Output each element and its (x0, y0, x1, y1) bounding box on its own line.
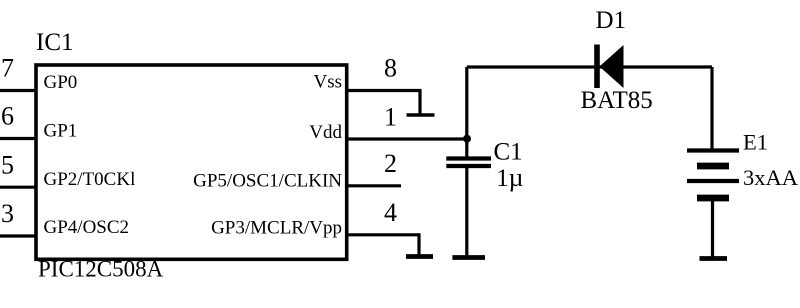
wire pin 2 stub (347, 184, 401, 187)
svg-text:GP5/OSC1/CLKIN: GP5/OSC1/CLKIN (193, 171, 342, 192)
wire pin 7 (0, 89, 36, 92)
capacitor C1 top plate (446, 156, 491, 160)
capacitor C1 bottom plate (446, 164, 491, 168)
svg-text:3: 3 (1, 199, 14, 228)
svg-text:C1: C1 (494, 138, 523, 165)
svg-text:IC1: IC1 (36, 29, 74, 56)
svg-text:1: 1 (384, 102, 397, 131)
ground for E1 (700, 256, 728, 261)
svg-text:GP3/MCLR/Vpp: GP3/MCLR/Vpp (211, 218, 342, 239)
ground for pin 8 (407, 113, 435, 117)
svg-text:5: 5 (1, 150, 14, 179)
svg-text:D1: D1 (596, 7, 627, 34)
battery E1 plate long 1 (687, 148, 739, 152)
IC IC1 body (PIC12C508A) (36, 65, 347, 259)
svg-text:GP0: GP0 (44, 72, 78, 93)
wire pin 3 (0, 234, 36, 237)
svg-text:BAT85: BAT85 (581, 87, 653, 114)
ground for pin 4 (406, 254, 433, 259)
svg-text:E1: E1 (743, 130, 768, 155)
wire pin 1 (Vdd) to node A (347, 137, 467, 140)
ground for C1 (452, 255, 485, 260)
svg-text:1: 1 (496, 165, 509, 192)
svg-text:PIC12C508A: PIC12C508A (38, 257, 164, 282)
svg-text:6: 6 (1, 102, 14, 131)
diode D1 cathode bar (594, 45, 600, 89)
svg-text:GP4/OSC2: GP4/OSC2 (44, 217, 130, 238)
svg-text:GP2/T0CKl: GP2/T0CKl (44, 169, 136, 190)
wire node A vertical (top rail to C1) (465, 67, 468, 159)
svg-text:8: 8 (384, 54, 397, 83)
wire pin 6 (0, 137, 36, 140)
diode D1 triangle (599, 45, 623, 88)
wire pin 4 to ground (347, 235, 419, 257)
wire C1 to ground (465, 166, 468, 258)
svg-text:Vdd: Vdd (309, 122, 342, 143)
svg-text:2: 2 (384, 149, 397, 178)
svg-text:µ: µ (509, 163, 524, 192)
svg-text:GP1: GP1 (44, 120, 78, 141)
wire top rail (467, 65, 712, 68)
battery E1 plate long 2 (687, 179, 739, 183)
wire pin 5 (0, 186, 36, 189)
wire battery to ground (711, 198, 714, 259)
wire pin 8 (Vss) to ground (347, 91, 420, 116)
battery E1 plate short 1 (697, 163, 729, 170)
svg-text:7: 7 (1, 54, 14, 83)
svg-text:4: 4 (384, 198, 397, 227)
battery E1 plate short 2 (697, 195, 729, 202)
node A junction dot (463, 135, 471, 143)
wire E1 branch vertical (710, 67, 713, 151)
svg-text:Vss: Vss (313, 72, 342, 93)
svg-text:3xAA: 3xAA (743, 165, 799, 190)
